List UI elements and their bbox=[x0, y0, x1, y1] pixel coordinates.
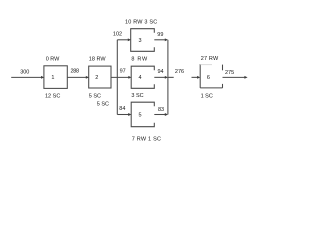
wire merge to node6 segment b with arrow bbox=[192, 76, 198, 78]
arrowhead node5 exit at merge bbox=[165, 113, 168, 116]
svg-text:102: 102 bbox=[113, 32, 122, 38]
arrowhead into node1 bbox=[41, 76, 44, 79]
svg-text:3 SC: 3 SC bbox=[131, 93, 143, 99]
svg-text:83: 83 bbox=[158, 107, 164, 113]
svg-text:5 SC: 5 SC bbox=[97, 101, 109, 107]
svg-text:97: 97 bbox=[120, 69, 126, 75]
wire merge to node6 segment a bbox=[168, 76, 174, 78]
svg-text:4: 4 bbox=[138, 75, 141, 81]
wire node3 exit to merge bbox=[154, 39, 165, 41]
svg-text:0 RW: 0 RW bbox=[46, 56, 60, 62]
svg-text:94: 94 bbox=[158, 69, 164, 75]
svg-text:8 RW: 8 RW bbox=[131, 56, 148, 62]
svg-text:275: 275 bbox=[225, 70, 234, 76]
arrowhead node3 exit at merge bbox=[165, 38, 168, 41]
arrowhead into node5 bbox=[128, 113, 131, 116]
svg-text:99: 99 bbox=[157, 32, 163, 38]
node 6 top right stub bbox=[222, 65, 224, 71]
node 6 bottom border bbox=[200, 87, 222, 89]
arrowhead final output bbox=[244, 76, 247, 79]
node 2 box bbox=[89, 66, 111, 88]
wire node1 to node2 bbox=[67, 76, 86, 78]
svg-text:5 SC: 5 SC bbox=[89, 93, 101, 99]
svg-text:276: 276 bbox=[175, 69, 184, 75]
svg-text:1: 1 bbox=[51, 75, 54, 81]
svg-text:7 RW 1 SC: 7 RW 1 SC bbox=[132, 136, 161, 142]
wire node6 exit output arrow bbox=[223, 76, 246, 78]
wire split to node5 branch bbox=[117, 114, 129, 116]
arrowhead into node6 bbox=[197, 76, 200, 79]
node 6 faint top border bbox=[200, 64, 212, 66]
svg-text:6: 6 bbox=[207, 75, 210, 81]
svg-text:5: 5 bbox=[138, 112, 141, 118]
svg-text:10 RW 3 SC: 10 RW 3 SC bbox=[125, 19, 157, 25]
wire split to node3 branch bbox=[117, 39, 128, 41]
node 1 box bbox=[44, 66, 67, 89]
arrowhead into node4 bbox=[128, 76, 131, 79]
arrowhead into node2 bbox=[86, 76, 89, 79]
node 6 bottom right stub bbox=[222, 84, 224, 88]
wire node2 to node4 through split junction bbox=[111, 76, 129, 78]
arrowhead node4 exit at merge bbox=[165, 76, 168, 79]
svg-text:84: 84 bbox=[119, 106, 125, 112]
wire node4 exit to merge bbox=[154, 76, 165, 78]
svg-text:2: 2 bbox=[95, 75, 98, 81]
svg-text:12 SC: 12 SC bbox=[45, 93, 60, 99]
node 3 box open right bbox=[131, 29, 155, 52]
arrowhead into node3 bbox=[128, 38, 131, 41]
node 5 box open right bbox=[131, 102, 154, 127]
svg-text:300: 300 bbox=[20, 69, 29, 75]
wire node5 exit to merge bbox=[154, 114, 165, 116]
svg-text:27 RW: 27 RW bbox=[201, 56, 219, 62]
svg-text:18 RW: 18 RW bbox=[89, 56, 107, 62]
wire input arrow into node 1 bbox=[11, 76, 41, 78]
wire merge vertical line bbox=[167, 40, 169, 115]
svg-text:288: 288 bbox=[71, 69, 80, 75]
svg-text:3: 3 bbox=[138, 38, 141, 44]
wire split vertical line bbox=[116, 40, 118, 115]
svg-text:1 SC: 1 SC bbox=[201, 93, 213, 99]
node 4 box open right bbox=[131, 66, 154, 88]
node 6 left border bbox=[199, 64, 201, 88]
